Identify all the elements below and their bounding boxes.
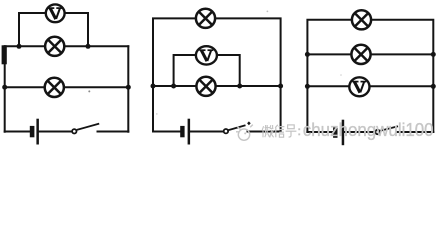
switch S2 lever — [228, 125, 246, 130]
watermark char 信 — [275, 125, 284, 138]
voltmeter V2 — [196, 46, 217, 64]
battery B3 (short thick bar) — [333, 127, 337, 138]
watermark char 号 — [286, 125, 297, 137]
junction dot C (left rail / L2) — [2, 85, 7, 90]
junction dot D (right rail / L2) — [126, 85, 131, 90]
battery B2 (short thick bar) — [180, 126, 184, 137]
switch S2 lever tip spark — [247, 121, 251, 125]
wire lamp L6 branch — [307, 53, 433, 55]
wire lamp L3 branch — [153, 85, 281, 87]
lamp L1 — [45, 37, 64, 56]
junction dot K (left rail / V3) — [305, 84, 310, 89]
wire voltmeter branch — [307, 85, 433, 87]
wire voltmeter branch (left connector + horizontal + right connector) — [174, 55, 240, 86]
switch S1 lever — [77, 124, 99, 130]
watermark colon — [298, 128, 300, 135]
svg-text:chuzhongwuli100: chuzhongwuli100 — [303, 120, 434, 140]
switch S1 pivot — [72, 129, 76, 133]
junction dot E (left rail / L3) — [151, 84, 156, 89]
battery B1 (short thick negative bar) — [30, 126, 35, 137]
switch S3 pivot — [375, 130, 379, 134]
switch S2 pivot — [224, 129, 228, 133]
junction dot F (V branch left) — [171, 84, 176, 89]
wire switch to right rail — [98, 131, 129, 133]
wire top branch with rails — [153, 18, 281, 131]
junction dot L (right rail / V3) — [431, 84, 436, 89]
battery B3 (long thin bar) — [342, 120, 345, 146]
wire right rail — [127, 46, 129, 131]
wire battery to switch — [344, 131, 376, 133]
lamp L2 — [45, 78, 64, 97]
wire bottom left to battery — [5, 131, 31, 133]
watermark logo circle — [236, 125, 253, 141]
lamp L4 (top) — [196, 9, 215, 28]
wire switch to right rail — [248, 131, 281, 133]
wire lamp L2 branch — [5, 86, 129, 88]
junction dot J (right rail / L6) — [431, 52, 436, 57]
wire bottom left to battery — [153, 131, 180, 133]
lamp L6 (middle) — [351, 45, 370, 64]
lamp L3 — [196, 77, 215, 96]
watermark char 微 — [262, 125, 273, 137]
voltmeter V3 — [349, 77, 369, 96]
battery B2 (long thin bar) — [188, 119, 191, 145]
left rail thick ink blob — [2, 45, 7, 64]
lamp L5 (top) — [352, 10, 371, 29]
scan speck — [88, 90, 90, 92]
junction dot B (V branch right) — [86, 44, 91, 49]
wire voltmeter branch (top, left connector + horizontal + right connector) — [19, 13, 88, 46]
scan speck — [267, 11, 269, 13]
wire battery to switch — [190, 131, 224, 133]
scan speck — [156, 113, 158, 115]
wire top branch with rails — [307, 20, 433, 132]
battery B1 (long thin positive bar) — [36, 119, 39, 145]
voltmeter V1 — [46, 4, 65, 22]
junction dot I (left rail / L6) — [305, 52, 310, 57]
wire lamp L1 branch — [5, 45, 129, 47]
junction dot G (V branch right) — [237, 84, 242, 89]
scan speck — [340, 74, 342, 76]
junction dot A (V branch left) — [17, 44, 22, 49]
junction dot H (right rail / L3) — [278, 84, 283, 89]
wire bottom left to battery — [307, 131, 333, 133]
wire left rail — [4, 46, 6, 131]
wire switch to right rail — [397, 131, 434, 133]
wire battery to switch — [39, 131, 72, 133]
switch S3 lever — [380, 126, 398, 131]
